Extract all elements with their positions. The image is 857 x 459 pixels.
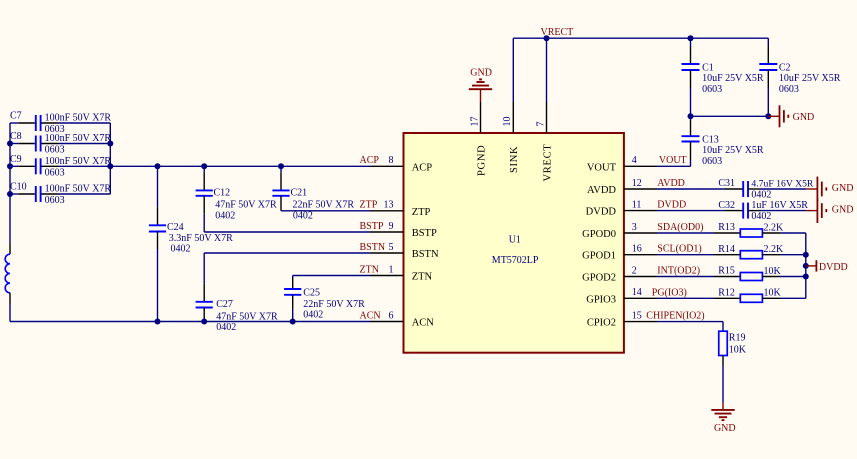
- svg-text:0402: 0402: [171, 244, 191, 255]
- svg-text:R15: R15: [718, 266, 735, 277]
- svg-text:1: 1: [389, 264, 394, 275]
- svg-text:10K: 10K: [764, 266, 782, 277]
- svg-text:8: 8: [389, 155, 394, 166]
- capacitor C2: [759, 64, 777, 70]
- svg-text:VOUT: VOUT: [587, 162, 617, 173]
- C25 footprint 0402: [303, 310, 323, 321]
- net label PG(IO3): [652, 287, 687, 298]
- svg-text:ZTP: ZTP: [360, 200, 378, 211]
- C13 footprint 0603: [702, 156, 722, 167]
- GND label right of C2: [793, 112, 815, 123]
- pin number 11: [632, 199, 642, 210]
- pin number 12: [632, 178, 642, 189]
- U1 pin name CPIO2: [587, 318, 616, 329]
- net label VOUT: [659, 155, 687, 166]
- U1 reference designator: [509, 235, 521, 246]
- U1 left pin 9: [371, 231, 404, 233]
- capacitor C24: [149, 225, 166, 231]
- wire CHIPEN pin to R19: [657, 322, 723, 332]
- U1 right pin 12: [624, 188, 657, 190]
- svg-text:PGND: PGND: [476, 145, 487, 176]
- net label SDA(OD0): [657, 222, 703, 233]
- svg-text:2.2K: 2.2K: [764, 244, 785, 255]
- svg-text:AVDD: AVDD: [587, 185, 616, 196]
- C10 footprint 0603: [45, 195, 65, 206]
- C24 value 3.3nF 50V X7R: [169, 233, 233, 244]
- svg-text:GPIO3: GPIO3: [586, 294, 616, 305]
- svg-text:MT5702LP: MT5702LP: [492, 255, 539, 266]
- svg-text:C2: C2: [779, 62, 791, 73]
- svg-text:DVDD: DVDD: [657, 200, 686, 211]
- svg-text:ZTN: ZTN: [412, 272, 433, 283]
- U1 pin name GPOD0: [582, 229, 616, 240]
- C13 designator: [702, 134, 719, 145]
- svg-text:10K: 10K: [764, 288, 782, 299]
- svg-text:14: 14: [632, 287, 642, 298]
- wire AVDD pin to C31: [657, 188, 743, 190]
- ground symbol GND below R19: [711, 403, 734, 421]
- pin number 6: [389, 310, 394, 321]
- svg-text:C31: C31: [718, 178, 735, 189]
- svg-text:ACN: ACN: [412, 318, 435, 329]
- C25 value 22nF 50V X7R: [303, 299, 365, 310]
- C8 designator: [10, 131, 22, 142]
- svg-text:AVDD: AVDD: [657, 178, 685, 189]
- svg-text:SDA(OD0): SDA(OD0): [657, 222, 703, 233]
- R19 designator: [729, 333, 746, 344]
- resistor R15: [740, 273, 762, 281]
- C2 value 10uF 25V X5R: [779, 73, 841, 84]
- wire C21 bottom to ZTP pin: [281, 196, 371, 211]
- capacitor C7: [10, 115, 110, 131]
- net label ZTN: [360, 264, 379, 275]
- wire C32 to GND: [748, 210, 806, 212]
- wire VRECT rail: [513, 37, 768, 39]
- C25 designator: [303, 288, 320, 299]
- R19 value 10K: [729, 344, 747, 355]
- R13 designator: [718, 222, 735, 233]
- pin number 5: [389, 242, 394, 253]
- svg-text:BSTN: BSTN: [412, 249, 439, 260]
- C9 footprint 0603: [45, 168, 65, 179]
- svg-text:0603: 0603: [779, 84, 799, 95]
- svg-text:R13: R13: [718, 222, 735, 233]
- svg-text:C32: C32: [718, 200, 735, 211]
- wire ground rail C1 to C2: [691, 115, 769, 117]
- svg-text:13: 13: [384, 200, 394, 211]
- U1 pin name AVDD: [587, 185, 616, 196]
- svg-text:BSTP: BSTP: [360, 221, 384, 232]
- svg-text:SINK: SINK: [509, 146, 520, 173]
- svg-text:0603: 0603: [702, 84, 722, 95]
- C8 value 100nF 50V X7R: [45, 133, 112, 144]
- pin number 3: [632, 222, 637, 233]
- svg-text:GPOD2: GPOD2: [582, 273, 616, 284]
- svg-text:GND: GND: [714, 423, 736, 434]
- svg-text:VRECT: VRECT: [542, 144, 553, 182]
- wire ACN net horizontal rail: [10, 321, 371, 323]
- C27 value 47nF 50V X7R: [216, 312, 278, 323]
- C2 footprint 0603: [779, 84, 799, 95]
- U1 pin name VOUT: [587, 162, 617, 173]
- wire pull-up bus vertical: [805, 233, 807, 298]
- pin number 14: [632, 287, 642, 298]
- U1 right pin 11: [624, 210, 657, 212]
- resistor R14: [740, 251, 762, 259]
- svg-text:2: 2: [632, 265, 637, 276]
- C2 designator: [779, 62, 791, 73]
- U1 pin name ZTP: [412, 207, 431, 218]
- svg-text:ACP: ACP: [412, 162, 433, 173]
- svg-text:C1: C1: [702, 62, 714, 73]
- capacitor C10: [10, 186, 110, 202]
- C32 designator: [718, 200, 735, 211]
- pin number 4: [632, 155, 637, 166]
- junction dots on ground rail: [688, 113, 772, 119]
- svg-text:C24: C24: [167, 222, 184, 233]
- svg-text:22nF 50V X7R: 22nF 50V X7R: [303, 299, 365, 310]
- pin number 1: [389, 264, 394, 275]
- wire ACP net horizontal: [110, 165, 370, 167]
- svg-text:100nF 50V X7R: 100nF 50V X7R: [45, 184, 112, 195]
- U1 pin name ACP: [412, 162, 433, 173]
- inductor L1 coil: [5, 254, 10, 293]
- svg-text:0402: 0402: [293, 210, 313, 221]
- net label ZTP: [360, 200, 378, 211]
- U1 pin name ACN: [412, 318, 435, 329]
- svg-text:CPIO2: CPIO2: [587, 318, 616, 329]
- U1 right pin 15: [624, 321, 657, 323]
- wire R13 to bus: [762, 232, 805, 234]
- C24 designator: [167, 222, 184, 233]
- wire C2 bottom to ground rail: [767, 70, 769, 116]
- pin number 15: [632, 310, 642, 321]
- net label BSTP: [360, 221, 384, 232]
- junction dots on VRECT rail: [544, 35, 694, 41]
- resistor R13: [740, 229, 762, 237]
- net label SCL(OD1): [657, 244, 701, 255]
- C10 designator: [10, 182, 27, 193]
- wire VRECT rail to C1 top: [690, 38, 692, 64]
- C32 footprint 0402: [751, 211, 771, 222]
- svg-text:4: 4: [632, 155, 637, 166]
- net label VRECT: [541, 27, 574, 38]
- wire ZTN pin to C25 top: [293, 276, 371, 290]
- U1 left pin 6: [371, 321, 404, 323]
- C1 value 10uF 25V X5R: [702, 73, 764, 84]
- svg-text:GND: GND: [832, 183, 854, 194]
- svg-text:PG(IO3): PG(IO3): [652, 287, 687, 298]
- svg-text:SCL(OD1): SCL(OD1): [657, 244, 701, 255]
- pin number 2: [632, 265, 637, 276]
- wire VRECT pin up to rail: [546, 38, 548, 102]
- svg-text:47nF 50V X7R: 47nF 50V X7R: [215, 199, 277, 210]
- pin number 7 (rotated): [535, 122, 546, 127]
- U1 left pin 8: [371, 165, 404, 167]
- wire inductor bottom to ACN rail: [9, 293, 11, 322]
- U1 pin name GPIO3: [586, 294, 616, 305]
- C12 footprint 0402: [215, 210, 235, 221]
- svg-text:7: 7: [535, 122, 546, 127]
- junction dots on bus: [803, 252, 809, 280]
- wire INT(OD2) pin to R15: [657, 276, 740, 278]
- svg-text:3: 3: [632, 222, 637, 233]
- svg-text:0402: 0402: [215, 210, 235, 221]
- U1 right pin 4: [624, 165, 657, 167]
- svg-text:R19: R19: [729, 333, 746, 344]
- pin number 10 (rotated): [502, 117, 513, 127]
- U1 pin name VRECT (rotated): [542, 144, 553, 182]
- svg-text:100nF 50V X7R: 100nF 50V X7R: [45, 156, 112, 167]
- U1 right pin 16: [624, 254, 657, 256]
- svg-text:6: 6: [389, 310, 394, 321]
- wire PG(IO3) pin to R12: [657, 297, 740, 299]
- wire BSTN pin to C27 top: [204, 253, 370, 302]
- C9 value 100nF 50V X7R: [45, 156, 112, 167]
- capacitor C27: [196, 302, 213, 308]
- C31 footprint 0402: [751, 190, 771, 201]
- svg-text:ACP: ACP: [360, 155, 380, 166]
- wire SINK pin to VRECT rail: [512, 38, 514, 102]
- junction dots left column: [7, 141, 13, 198]
- svg-text:DVDD: DVDD: [819, 262, 848, 273]
- svg-text:R12: R12: [718, 288, 735, 299]
- C21 designator: [291, 187, 308, 198]
- net label ACN: [360, 310, 381, 321]
- svg-text:0603: 0603: [45, 168, 65, 179]
- svg-text:0603: 0603: [45, 145, 65, 156]
- C8 footprint 0603: [45, 145, 65, 156]
- wire C12 bottom to BSTP pin: [204, 196, 370, 232]
- ground symbol GND at C32: [806, 198, 826, 223]
- svg-text:0603: 0603: [45, 195, 65, 206]
- C9 designator: [10, 154, 22, 165]
- C12 value 47nF 50V X7R: [215, 199, 277, 210]
- svg-text:10K: 10K: [729, 344, 747, 355]
- pin number 16: [632, 244, 642, 255]
- svg-text:9: 9: [389, 221, 394, 232]
- capacitor C25: [284, 289, 301, 295]
- svg-text:C13: C13: [702, 134, 719, 145]
- R12 value 10K: [764, 288, 782, 299]
- ground symbol GND at C31: [806, 177, 826, 202]
- svg-text:2.2K: 2.2K: [764, 222, 785, 233]
- GND label at PGND: [470, 68, 492, 79]
- wire C31 to GND: [748, 188, 806, 190]
- junction dots on ACP wire: [155, 163, 285, 169]
- svg-text:C12: C12: [214, 187, 231, 198]
- C21 value 22nF 50V X7R: [293, 199, 355, 210]
- C1 designator: [702, 62, 714, 73]
- U1 pin name BSTP: [412, 228, 437, 239]
- R14 designator: [718, 244, 735, 255]
- svg-text:12: 12: [632, 178, 642, 189]
- svg-text:BSTN: BSTN: [360, 242, 386, 253]
- svg-text:C9: C9: [10, 154, 22, 165]
- svg-text:10: 10: [502, 117, 513, 127]
- svg-text:11: 11: [632, 199, 642, 210]
- capacitor C21: [272, 190, 289, 195]
- svg-text:GPOD0: GPOD0: [582, 229, 616, 240]
- wire R15 to bus: [762, 276, 805, 278]
- ground symbol GND at PGND pin: [469, 79, 492, 102]
- wire C24 bottom to ACN rail: [157, 232, 159, 322]
- net label INT(OD2): [657, 266, 700, 277]
- U1 top pin 10: [512, 102, 514, 133]
- wire R14 to bus: [762, 254, 805, 256]
- C27 footprint 0402: [216, 322, 236, 333]
- svg-text:0402: 0402: [751, 190, 771, 201]
- resistor R12: [740, 294, 762, 302]
- svg-text:GND: GND: [470, 68, 492, 79]
- C7 value 100nF 50V X7R: [45, 113, 112, 124]
- wire C25 bottom to ACN rail: [292, 295, 294, 322]
- C12 designator: [214, 187, 231, 198]
- U1 right pin 14: [624, 297, 657, 299]
- U1 left pin 1: [371, 275, 404, 277]
- svg-text:16: 16: [632, 244, 642, 255]
- U1 pin name PGND (rotated): [476, 145, 487, 176]
- svg-text:DVDD: DVDD: [586, 207, 617, 218]
- svg-text:C21: C21: [291, 187, 308, 198]
- net label DVDD: [657, 200, 686, 211]
- svg-text:4.7uF 16V X5R: 4.7uF 16V X5R: [751, 179, 814, 190]
- op-amp U1 IC body MT5702LP: [404, 133, 624, 353]
- svg-text:0402: 0402: [216, 322, 236, 333]
- capacitor C1: [682, 64, 700, 70]
- wire ground rail to C13 top: [690, 116, 692, 136]
- pin number 17 (rotated): [469, 117, 480, 127]
- svg-text:ZTP: ZTP: [412, 207, 431, 218]
- U1 pin name BSTN: [412, 249, 439, 260]
- wire C13 bottom to VOUT pin: [657, 142, 691, 167]
- wire ACP to C24 top: [157, 166, 159, 225]
- svg-text:ACN: ACN: [360, 310, 381, 321]
- C27 designator: [216, 299, 233, 310]
- net label BSTN: [360, 242, 386, 253]
- C21 footprint 0402: [293, 210, 313, 221]
- svg-text:0402: 0402: [751, 211, 771, 222]
- svg-text:C10: C10: [10, 182, 27, 193]
- power symbol DVDD on bus: [806, 260, 817, 271]
- svg-text:22nF 50V X7R: 22nF 50V X7R: [293, 199, 355, 210]
- R15 value 10K: [764, 266, 782, 277]
- wire R12 to bus: [762, 297, 805, 299]
- svg-text:INT(OD2): INT(OD2): [657, 266, 700, 277]
- wire VRECT rail corner down to C2: [767, 38, 769, 64]
- svg-text:1uF 16V X5R: 1uF 16V X5R: [751, 200, 808, 211]
- svg-text:100nF 50V X7R: 100nF 50V X7R: [45, 113, 112, 124]
- U1 right pin 2: [624, 276, 657, 278]
- capacitor C9: [10, 158, 110, 174]
- GND label below R19: [714, 423, 736, 434]
- svg-text:10uF 25V X5R: 10uF 25V X5R: [779, 73, 841, 84]
- wire R19 bottom to ground: [722, 356, 724, 403]
- C7 designator: [10, 111, 22, 122]
- pin number 9: [389, 221, 394, 232]
- wire SCL(OD1) pin to R14: [657, 254, 740, 256]
- svg-text:GPOD1: GPOD1: [582, 251, 616, 262]
- svg-text:0603: 0603: [702, 156, 722, 167]
- U1 left pin 5: [371, 252, 404, 254]
- svg-text:5: 5: [389, 242, 394, 253]
- U1 right pin 3: [624, 232, 657, 234]
- svg-text:3.3nF 50V X7R: 3.3nF 50V X7R: [169, 233, 233, 244]
- wire SDA(OD0) pin to R13: [657, 232, 740, 234]
- R15 designator: [718, 266, 735, 277]
- wire right column of cap stack: [109, 123, 111, 194]
- svg-text:BSTP: BSTP: [412, 228, 437, 239]
- DVDD power label: [819, 262, 848, 273]
- C7 footprint 0603: [45, 124, 65, 135]
- pin number 13: [384, 200, 394, 211]
- wire ACP to C21 top: [280, 166, 282, 190]
- net label CHIPEN(IO2): [646, 311, 704, 322]
- svg-text:C27: C27: [216, 299, 233, 310]
- svg-text:0402: 0402: [303, 310, 323, 321]
- net label ACP: [360, 155, 380, 166]
- svg-text:CHIPEN(IO2): CHIPEN(IO2): [646, 311, 704, 322]
- svg-text:R14: R14: [718, 244, 735, 255]
- junction dots on ACN rail: [155, 319, 296, 325]
- svg-text:GND: GND: [793, 112, 815, 123]
- C1 footprint 0603: [702, 84, 722, 95]
- capacitor C8: [10, 136, 110, 152]
- U1 top pin 7: [546, 102, 548, 133]
- R14 value 2.2K: [764, 244, 785, 255]
- U1 pin name SINK (rotated): [509, 146, 520, 173]
- svg-text:100nF 50V X7R: 100nF 50V X7R: [45, 133, 112, 144]
- svg-text:10uF 25V X5R: 10uF 25V X5R: [702, 145, 764, 156]
- U1 pin name GPOD1: [582, 251, 616, 262]
- U1 pin name GPOD2: [582, 273, 616, 284]
- GND label at C31: [832, 183, 854, 194]
- C32 value 1uF 16V X5R: [751, 200, 808, 211]
- capacitor C13: [682, 136, 700, 141]
- U1 top pin 17: [480, 102, 482, 133]
- svg-text:U1: U1: [509, 235, 521, 246]
- capacitor C12: [196, 190, 213, 195]
- resistor R19: [719, 331, 728, 355]
- wire C1 bottom to ground rail: [690, 70, 692, 116]
- wire C27 bottom to ACN rail: [203, 308, 205, 322]
- C31 value 4.7uF 16V X5R: [751, 179, 814, 190]
- svg-text:15: 15: [632, 310, 642, 321]
- svg-text:17: 17: [469, 117, 480, 127]
- svg-text:VOUT: VOUT: [659, 155, 687, 166]
- junction dots right column: [107, 141, 113, 170]
- GND label at C32: [832, 204, 854, 215]
- svg-text:C7: C7: [10, 111, 22, 122]
- pin number 8: [389, 155, 394, 166]
- capacitor C31: [743, 181, 748, 197]
- svg-text:GND: GND: [832, 204, 854, 215]
- svg-text:VRECT: VRECT: [541, 27, 574, 38]
- wire left column of cap stack: [9, 123, 11, 254]
- U1 left pin 13: [371, 210, 404, 212]
- C13 value 10uF 25V X5R: [702, 145, 764, 156]
- svg-text:C25: C25: [303, 288, 320, 299]
- C10 value 100nF 50V X7R: [45, 184, 112, 195]
- U1 pin name DVDD: [586, 207, 617, 218]
- wire ACP to C12 top: [203, 166, 205, 190]
- R12 designator: [718, 288, 735, 299]
- ground symbol GND right of C2: [768, 105, 788, 127]
- svg-text:10uF 25V X5R: 10uF 25V X5R: [702, 73, 764, 84]
- C31 designator: [718, 178, 735, 189]
- C24 footprint 0402: [171, 244, 191, 255]
- R13 value 2.2K: [764, 222, 785, 233]
